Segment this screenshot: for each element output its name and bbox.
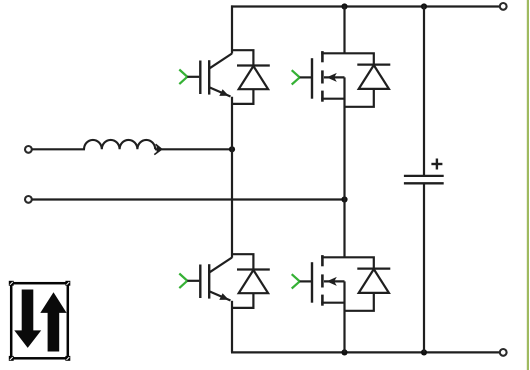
- wire capacitor leg upper: [423, 5, 425, 176]
- wire bottom rail: [231, 351, 499, 353]
- diode D3 (antiparallel with Q3): [232, 254, 270, 308]
- inductor L1: [84, 140, 163, 155]
- block icon: bidirectional arrows (selected block): [9, 281, 71, 361]
- wire capacitor leg lower: [423, 183, 425, 352]
- MOSFET Q2 upper-right: [292, 51, 345, 102]
- wire right leg middle (Q2 source to mid rail): [343, 77, 345, 199]
- wire inductor to phase node: [155, 148, 232, 150]
- wire right leg lower (mid rail to Q4 drain): [343, 200, 345, 258]
- diode D4 (antiparallel with Q4): [345, 257, 391, 311]
- wire right leg bottom (Q4 source): [343, 281, 345, 352]
- capacitor C1: [404, 159, 444, 184]
- node junction bottom rail / right leg: [341, 349, 347, 355]
- wire left leg lower (Q3 emitter): [231, 301, 233, 353]
- node junction bottom rail / capacitor leg: [421, 349, 427, 355]
- wire left leg upper (Q1 collector): [231, 5, 233, 53]
- terminal input top-left: [25, 146, 32, 153]
- MOSFET Q4 lower-right: [292, 255, 345, 306]
- node junction top rail / capacitor leg: [421, 3, 427, 9]
- node mid rail / right leg junction: [341, 196, 347, 202]
- diode D2 (antiparallel with Q2): [345, 53, 391, 107]
- wire left leg middle (Q1 emitter to Q3 collector): [231, 97, 233, 258]
- terminal P top-right: [500, 3, 507, 10]
- IGBT Q3 lower-left: [179, 258, 232, 301]
- node inductor / left leg junction: [229, 146, 235, 152]
- wire input terminal to inductor: [32, 148, 85, 150]
- wire top rail: [231, 5, 499, 7]
- wire mid rail: [32, 198, 345, 200]
- terminal N bottom-right: [500, 349, 507, 356]
- node junction top rail / right leg: [341, 3, 347, 9]
- diode D1 (antiparallel with Q1): [232, 50, 270, 104]
- IGBT Q1 upper-left: [179, 54, 232, 97]
- terminal input bottom-left: [25, 196, 32, 203]
- wire right leg upper (Q2 drain): [343, 5, 345, 53]
